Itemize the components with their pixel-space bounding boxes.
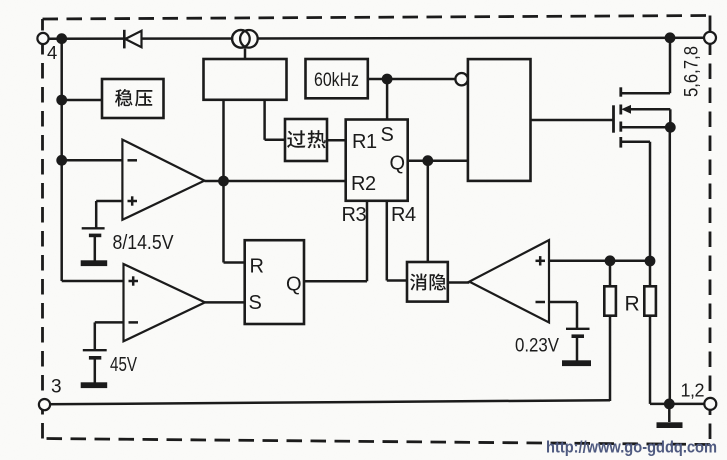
wire R-right bottom to pins 1,2 rail	[649, 316, 652, 404]
wire node to resistor R-left	[609, 261, 612, 287]
svg-text:S: S	[249, 292, 262, 314]
node U2 inverting tap	[56, 155, 67, 166]
wire sense down to current sense node	[649, 142, 652, 286]
wire U3 output to latch U4 S input	[205, 301, 245, 304]
wire R-left bottom to pin 3 rail	[609, 316, 612, 401]
wire R3 (latch U1 to U4 Q)	[366, 201, 369, 281]
60kHz oscillator block	[306, 59, 368, 98]
pin 4	[37, 33, 48, 44]
wire node down to U1 S input	[386, 79, 389, 120]
wire current source to oscillator box	[244, 48, 247, 59]
MOSFET Q1 body arrow	[621, 105, 631, 114]
wire B2 to ground	[94, 358, 97, 383]
wire left rail from pin 4 down	[60, 39, 63, 282]
ground (B2)	[81, 382, 108, 388]
voltage regulator block (稳压)	[102, 79, 164, 118]
U6 non-inverting input mark	[536, 260, 546, 263]
svg-text:5,6,7,8: 5,6,7,8	[681, 46, 703, 97]
wire oscillator left output down to comparator output node	[222, 100, 225, 181]
wire R4 (latch U1 to blanking)	[386, 201, 389, 281]
current source (double circle)	[232, 30, 258, 48]
svg-text:8/14.5V: 8/14.5V	[113, 232, 175, 254]
wire top supply rail from pin 4 to pins 5,6,7,8	[43, 38, 710, 39]
MOSFET Q1 gate bar	[612, 105, 615, 132]
node U2 output junction	[218, 176, 229, 187]
diode D1 cathode bar	[123, 30, 126, 49]
svg-text:R3: R3	[342, 204, 367, 226]
svg-text:http://www.go-gddq.com: http://www.go-gddq.com	[546, 438, 717, 457]
wire B3 to ground	[576, 336, 579, 360]
U6 inverting input mark	[536, 301, 546, 304]
resistor R (right)	[644, 286, 656, 315]
latch U4 (R,S / Q)	[245, 240, 304, 324]
wire pin 3 rail	[45, 400, 611, 404]
node pin4 branch	[56, 33, 67, 44]
U3 non-inverting input mark	[129, 280, 139, 283]
svg-text:3: 3	[51, 377, 62, 398]
svg-text:R1: R1	[352, 131, 377, 153]
U2 non-inverting input mark	[128, 200, 138, 203]
U3 inverting input mark	[129, 321, 139, 324]
wire left rail to U3 + input	[62, 280, 124, 283]
driver input bubble	[455, 73, 467, 85]
node regulator tap	[56, 95, 67, 106]
svg-text:Q: Q	[286, 274, 302, 296]
wire blanking to comparator U6 output	[448, 281, 470, 284]
node sense/divider junction	[645, 256, 656, 267]
label 稳压	[115, 89, 133, 106]
wire thermal to R1 input	[327, 139, 346, 142]
wire U3 - input to battery B2	[95, 321, 124, 324]
wire U6 - input to battery B3	[549, 301, 577, 304]
wire U6 + input to sense node	[549, 260, 650, 263]
svg-text:S: S	[381, 124, 394, 146]
wire pins 1,2 rail	[650, 403, 710, 406]
MOSFET Q1 drain stub	[621, 92, 670, 95]
node Q output junction	[422, 155, 433, 166]
wire left rail to regulator	[62, 99, 102, 102]
resistor R (left)	[604, 286, 616, 315]
wire oscillator right output down to thermal block	[263, 100, 266, 140]
diode D1 body	[125, 31, 141, 47]
wire 60kHz to driver inverting input	[368, 78, 456, 81]
wire U1 Q output to driver	[408, 159, 468, 162]
wire U2 + input to reference battery	[96, 200, 122, 203]
pin 5,6,7,8	[704, 32, 716, 44]
wire U2 output to latch U1 R2 input	[205, 180, 346, 183]
svg-text:0.23V: 0.23V	[515, 335, 559, 357]
wire U4 Q output to R3	[304, 280, 367, 283]
node ground junction	[664, 399, 675, 410]
comparator U2 (overvoltage)	[122, 140, 204, 220]
wire ground stub	[668, 404, 671, 422]
wire left rail to U2 inverting input	[62, 159, 123, 162]
ground (B3)	[562, 360, 591, 366]
wire B1 to ground	[94, 235, 97, 260]
svg-text:4: 4	[47, 42, 57, 63]
oscillator block (unlabeled box)	[204, 59, 287, 100]
svg-text:R: R	[250, 256, 264, 278]
thermal protection block (过热)	[285, 119, 327, 161]
wire Q node down to blanking block	[427, 161, 430, 262]
svg-text:60kHz: 60kHz	[314, 69, 359, 91]
MOSFET Q1 channel segments	[619, 87, 622, 96]
U2 inverting input mark	[128, 159, 138, 162]
node drain/top-rail junction	[665, 32, 676, 43]
label 过热	[287, 130, 305, 148]
MOSFET Q1 sense stub	[621, 141, 650, 144]
svg-text:R4: R4	[391, 204, 416, 226]
pin 3	[39, 399, 50, 410]
latch U1 (R1,R2 / S,Q)	[346, 120, 408, 201]
node 60kHz/S junction	[382, 74, 393, 85]
battery B1 reference	[82, 227, 105, 229]
svg-text:45V: 45V	[110, 354, 137, 376]
wire driver output to MOSFET gate	[531, 119, 614, 122]
node + input / divider junction	[605, 255, 616, 266]
comparator U3 (45V)	[124, 264, 206, 341]
node source junction	[665, 122, 676, 133]
pin 1,2	[704, 398, 716, 410]
blanking block (消隐)	[407, 262, 448, 302]
ground (B1)	[81, 260, 108, 266]
battery B2 45V reference	[83, 349, 107, 351]
ground (power)	[657, 422, 683, 428]
svg-text:1,2: 1,2	[681, 381, 705, 401]
label 消隐	[410, 273, 427, 290]
battery B3 0.23V reference	[566, 328, 590, 330]
MOSFET Q1 source stub	[621, 126, 670, 129]
svg-text:Q: Q	[390, 153, 406, 175]
comparator U6 (current sense)	[469, 240, 549, 322]
svg-text:R: R	[625, 293, 640, 316]
driver block U5	[468, 59, 531, 181]
wire comparator node down to U4 R input	[222, 181, 225, 263]
svg-text:R2: R2	[351, 173, 376, 195]
wire source down to pins 1,2	[669, 127, 672, 404]
